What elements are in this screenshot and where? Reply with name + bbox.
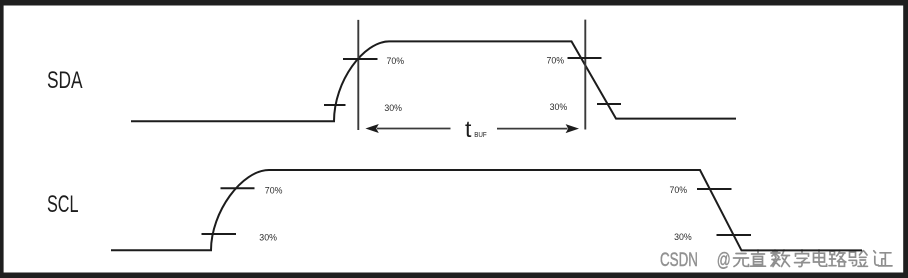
svg-text:t: t bbox=[465, 116, 472, 142]
svg-text:@: @ bbox=[717, 249, 731, 271]
svg-text:30%: 30% bbox=[259, 232, 277, 242]
svg-text:70%: 70% bbox=[547, 56, 565, 66]
svg-text:BUF: BUF bbox=[474, 130, 487, 139]
svg-text:CSDN: CSDN bbox=[660, 249, 698, 271]
svg-text:SCL: SCL bbox=[47, 191, 79, 218]
svg-text:SDA: SDA bbox=[47, 67, 83, 94]
svg-text:70%: 70% bbox=[265, 186, 283, 196]
svg-text:70%: 70% bbox=[670, 185, 688, 195]
svg-text:70%: 70% bbox=[387, 56, 405, 66]
svg-text:30%: 30% bbox=[674, 232, 692, 242]
svg-text:30%: 30% bbox=[550, 102, 568, 112]
svg-text:30%: 30% bbox=[384, 103, 402, 113]
